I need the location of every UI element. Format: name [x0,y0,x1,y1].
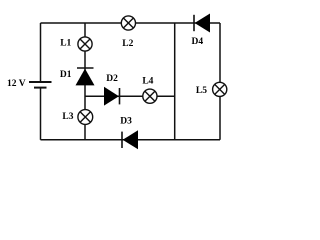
svg-text:L4: L4 [142,76,153,86]
diode D3 [122,130,138,149]
wire left lower [40,88,42,139]
wire left upper [40,23,42,81]
diode D1 [76,68,95,85]
svg-text:D4: D4 [191,37,203,47]
svg-text:L5: L5 [196,86,207,96]
svg-text:L2: L2 [122,39,133,49]
svg-text:D2: D2 [106,74,118,84]
lamp L2 [121,16,135,30]
lamp L4 [143,89,157,103]
svg-text:L1: L1 [60,39,71,49]
battery 12V [29,82,52,88]
wire bottom [41,139,221,141]
lamp L3 [78,110,93,125]
wire right [219,23,221,140]
wire right-inner vertical [174,23,176,140]
svg-text:12 V: 12 V [7,79,26,89]
svg-text:L3: L3 [62,112,73,122]
lamp L1 [78,37,92,51]
wire middle horizontal [85,95,175,97]
diode D4 [194,14,210,33]
wire top [41,22,221,24]
diode D2 [104,87,120,106]
lamp L5 [213,82,227,96]
svg-text:D1: D1 [60,70,72,80]
wire middle branch vertical [84,23,86,140]
svg-text:D3: D3 [120,116,132,126]
